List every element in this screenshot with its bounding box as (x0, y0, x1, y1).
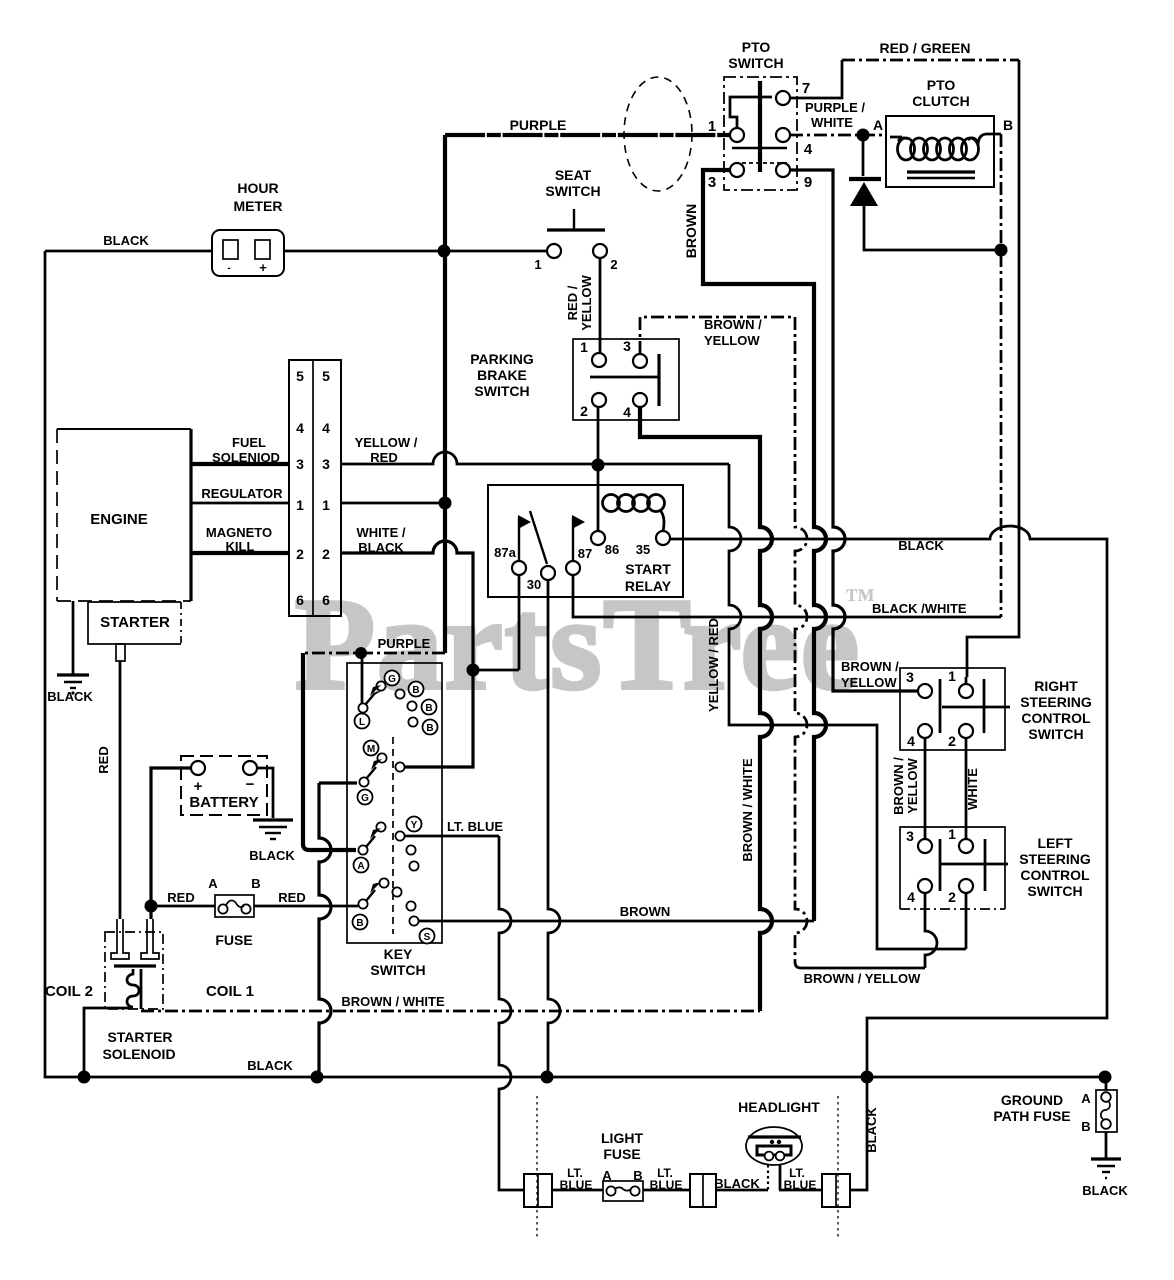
svg-text:G: G (388, 674, 396, 685)
svg-text:LEFT: LEFT (1038, 835, 1073, 851)
svg-text:CLUTCH: CLUTCH (912, 93, 970, 109)
svg-text:S: S (424, 932, 431, 943)
svg-text:FUSE: FUSE (603, 1146, 640, 1162)
svg-text:2: 2 (610, 257, 617, 272)
svg-text:BLUE: BLUE (650, 1178, 683, 1192)
svg-text:4: 4 (623, 404, 631, 420)
svg-text:BROWN /: BROWN / (891, 757, 906, 815)
svg-text:SEAT: SEAT (555, 167, 592, 183)
svg-text:PURPLE /: PURPLE / (805, 100, 865, 115)
svg-text:5: 5 (322, 368, 330, 384)
svg-text:SWITCH: SWITCH (1028, 726, 1083, 742)
svg-text:COIL 2: COIL 2 (45, 983, 93, 1000)
svg-text:M: M (367, 744, 375, 755)
svg-text:YELLOW / RED: YELLOW / RED (706, 618, 721, 712)
svg-text:1: 1 (296, 497, 304, 513)
svg-text:FUEL: FUEL (232, 435, 266, 450)
svg-text:1: 1 (534, 257, 541, 272)
svg-text:A: A (208, 876, 218, 891)
svg-text:2: 2 (296, 546, 304, 562)
svg-text:FUSE: FUSE (215, 932, 252, 948)
svg-text:WHITE: WHITE (811, 115, 853, 130)
svg-text:4: 4 (322, 420, 330, 436)
svg-text:BLACK /WHITE: BLACK /WHITE (872, 601, 967, 616)
svg-text:3: 3 (906, 828, 914, 844)
svg-text:PATH FUSE: PATH FUSE (993, 1108, 1070, 1124)
svg-text:30: 30 (527, 577, 541, 592)
svg-text:86: 86 (605, 542, 619, 557)
svg-text:WHITE: WHITE (965, 768, 980, 810)
svg-text:BLACK: BLACK (47, 689, 93, 704)
svg-text:RED / GREEN: RED / GREEN (879, 40, 970, 56)
svg-text:B: B (356, 918, 363, 929)
svg-text:A: A (873, 117, 883, 133)
svg-text:™: ™ (845, 583, 875, 616)
svg-text:-: - (227, 263, 230, 274)
svg-text:WHITE /: WHITE / (356, 525, 405, 540)
svg-text:RED: RED (167, 890, 194, 905)
svg-text:SWITCH: SWITCH (474, 383, 529, 399)
svg-text:1: 1 (580, 339, 588, 355)
svg-text:KILL: KILL (226, 539, 255, 554)
svg-text:A: A (602, 1168, 612, 1183)
svg-text:BROWN / WHITE: BROWN / WHITE (740, 758, 755, 862)
svg-text:MAGNETO: MAGNETO (206, 525, 272, 540)
svg-text:YELLOW: YELLOW (841, 675, 897, 690)
svg-text:YELLOW: YELLOW (905, 757, 920, 813)
svg-text:COIL 1: COIL 1 (206, 983, 254, 1000)
svg-text:1: 1 (322, 497, 330, 513)
svg-text:CONTROL: CONTROL (1021, 710, 1091, 726)
svg-text:3: 3 (623, 338, 631, 354)
svg-text:BRAKE: BRAKE (477, 367, 527, 383)
svg-text:4: 4 (296, 420, 304, 436)
svg-text:87: 87 (578, 546, 592, 561)
svg-text:−: − (246, 776, 255, 793)
svg-text:YELLOW: YELLOW (579, 274, 594, 330)
svg-text:PTO: PTO (927, 77, 956, 93)
svg-text:+: + (259, 260, 267, 275)
svg-text:PURPLE: PURPLE (378, 636, 431, 651)
svg-text:STEERING: STEERING (1019, 851, 1091, 867)
svg-text:BLUE: BLUE (784, 1178, 817, 1192)
svg-text:3: 3 (296, 456, 304, 472)
svg-text:SOLENOID: SOLENOID (102, 1046, 175, 1062)
svg-text:YELLOW /: YELLOW / (355, 435, 418, 450)
svg-text:CONTROL: CONTROL (1020, 867, 1090, 883)
svg-text:BLACK: BLACK (358, 540, 404, 555)
svg-text:BROWN: BROWN (620, 904, 671, 919)
svg-text:2: 2 (948, 733, 956, 749)
svg-text:35: 35 (636, 542, 650, 557)
svg-text:LT. BLUE: LT. BLUE (447, 819, 503, 834)
svg-text:4: 4 (804, 141, 813, 158)
svg-text:SOLENIOD: SOLENIOD (212, 450, 280, 465)
svg-text:RELAY: RELAY (625, 578, 672, 594)
svg-text:7: 7 (802, 80, 810, 97)
svg-text:REGULATOR: REGULATOR (201, 486, 283, 501)
svg-text:RIGHT: RIGHT (1034, 678, 1078, 694)
svg-text:BLACK: BLACK (714, 1176, 760, 1191)
svg-text:BLACK: BLACK (103, 233, 149, 248)
svg-text:2: 2 (948, 889, 956, 905)
svg-text:1: 1 (948, 668, 956, 684)
svg-text:9: 9 (804, 174, 812, 191)
svg-text:G: G (361, 793, 369, 804)
svg-text:STARTER: STARTER (100, 614, 170, 631)
svg-text:A: A (1081, 1091, 1091, 1106)
svg-text:GROUND: GROUND (1001, 1092, 1063, 1108)
svg-text:BROWN: BROWN (683, 204, 699, 258)
svg-text:B: B (425, 703, 432, 714)
svg-text:1: 1 (708, 118, 716, 135)
svg-text:BLUE: BLUE (560, 1178, 593, 1192)
svg-text:B: B (251, 876, 260, 891)
svg-text:B: B (1003, 117, 1013, 133)
svg-text:6: 6 (322, 592, 330, 608)
svg-text:SWITCH: SWITCH (370, 962, 425, 978)
svg-text:PURPLE: PURPLE (510, 117, 567, 133)
svg-text:STARTER: STARTER (107, 1029, 172, 1045)
svg-text:B: B (426, 723, 433, 734)
svg-text:SWITCH: SWITCH (728, 55, 783, 71)
svg-text:RED: RED (278, 890, 305, 905)
svg-text:4: 4 (907, 889, 915, 905)
svg-text:2: 2 (580, 403, 588, 419)
svg-text:B: B (633, 1168, 642, 1183)
svg-text:BROWN / YELLOW: BROWN / YELLOW (804, 971, 921, 986)
svg-text:A: A (357, 861, 364, 872)
svg-text:BROWN / WHITE: BROWN / WHITE (341, 994, 445, 1009)
svg-text:5: 5 (296, 368, 304, 384)
svg-text:YELLOW: YELLOW (704, 333, 760, 348)
svg-text:ENGINE: ENGINE (90, 511, 148, 528)
svg-text:Y: Y (411, 820, 418, 831)
svg-text:BLACK: BLACK (1082, 1183, 1128, 1198)
svg-text:B: B (1081, 1119, 1090, 1134)
svg-text:METER: METER (234, 198, 283, 214)
svg-text:+: + (194, 778, 203, 795)
svg-text:BATTERY: BATTERY (189, 794, 258, 811)
svg-text:B: B (412, 685, 419, 696)
svg-text:BLACK: BLACK (249, 848, 295, 863)
svg-text:6: 6 (296, 592, 304, 608)
svg-text:1: 1 (948, 826, 956, 842)
svg-text:PARKING: PARKING (470, 351, 534, 367)
svg-text:LIGHT: LIGHT (601, 1130, 643, 1146)
svg-text:HEADLIGHT: HEADLIGHT (738, 1099, 820, 1115)
svg-text:BLACK: BLACK (864, 1107, 879, 1153)
svg-text:STEERING: STEERING (1020, 694, 1092, 710)
svg-text:SWITCH: SWITCH (1027, 883, 1082, 899)
svg-text:RED: RED (370, 450, 397, 465)
svg-text:BROWN /: BROWN / (704, 317, 762, 332)
svg-text:HOUR: HOUR (237, 180, 278, 196)
svg-text:2: 2 (322, 546, 330, 562)
svg-text:3: 3 (322, 456, 330, 472)
svg-text:3: 3 (708, 174, 716, 191)
svg-text:87a: 87a (494, 545, 516, 560)
svg-text:3: 3 (906, 669, 914, 685)
svg-text:PTO: PTO (742, 39, 771, 55)
svg-text:L: L (359, 717, 365, 728)
svg-text:BLACK: BLACK (898, 538, 944, 553)
svg-text:BROWN /: BROWN / (841, 659, 899, 674)
svg-text:RED: RED (96, 746, 111, 773)
svg-text:SWITCH: SWITCH (545, 183, 600, 199)
svg-text:KEY: KEY (384, 946, 413, 962)
svg-text:4: 4 (907, 733, 915, 749)
svg-text:BLACK: BLACK (247, 1058, 293, 1073)
svg-text:START: START (625, 561, 671, 577)
svg-text:RED /: RED / (565, 285, 580, 320)
